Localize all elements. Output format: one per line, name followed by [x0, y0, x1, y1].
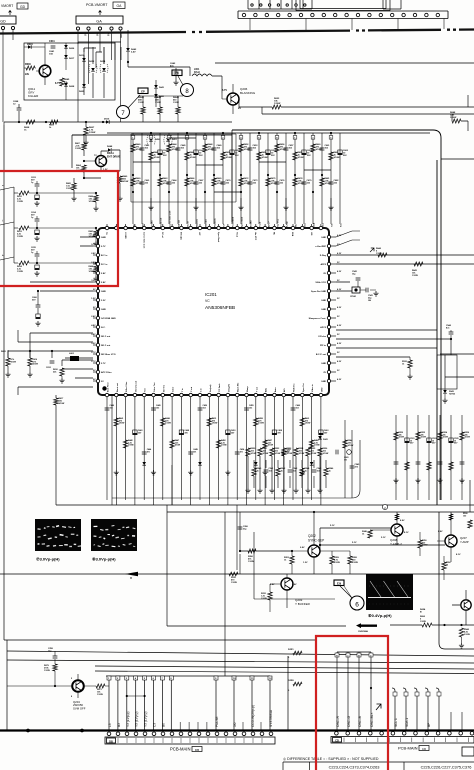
- label R-cross: [231, 577, 237, 584]
- svg-text:⑥0.4Vp-p(H): ⑥0.4Vp-p(H): [368, 613, 392, 618]
- svg-text:RJR8: RJR8: [288, 680, 294, 682]
- label Q206 BLANKING: [222, 87, 256, 110]
- svg-text:R645: R645: [64, 78, 70, 81]
- svg-text:APC Filter: APC Filter: [101, 371, 112, 374]
- svg-text:CF541: CF541: [350, 295, 357, 298]
- testpoint box E29: [334, 580, 352, 598]
- resistor R208 R210 row: [320, 551, 358, 574]
- bottom connector line 2: [116, 676, 121, 730]
- svg-text:C641: C641: [49, 40, 55, 43]
- svg-text:Delay(Y): Delay(Y): [228, 384, 230, 392]
- svg-text:◎ DIFFERENCE TABLE ○ : SUPP: ◎ DIFFERENCE TABLE ○ : SUPPLIED × : NOT …: [283, 757, 379, 761]
- svg-text:GA: GA: [96, 20, 102, 24]
- svg-text:AN5306NFBB: AN5306NFBB: [205, 305, 235, 311]
- CD connector line 4: [436, 688, 441, 730]
- diode D605: [79, 84, 86, 93]
- svg-text:37µH: 37µH: [194, 72, 200, 74]
- svg-text:Corner Sels Cont: Corner Sels Cont: [169, 210, 172, 227]
- resistor R664: [76, 164, 86, 178]
- svg-text:SDA: SDA: [291, 232, 294, 237]
- label Q205 Y-AMP-2: [381, 520, 409, 546]
- svg-text:D648: D648: [107, 145, 113, 148]
- resistor R669: [117, 176, 128, 201]
- svg-text:SD Tint: SD Tint: [162, 385, 165, 392]
- svg-text:CHROMA: CHROMA: [358, 630, 368, 633]
- inductor L601: [65, 353, 93, 361]
- wire GA pins down: [78, 30, 121, 122]
- svg-text:D614: D614: [100, 60, 106, 63]
- wire left pins 360-378: [62, 360, 93, 378]
- svg-text:1/10W: 1/10W: [420, 621, 426, 623]
- svg-text:AFC F: AFC F: [268, 220, 271, 227]
- svg-text:6: 6: [355, 602, 359, 609]
- svg-text:SD-Y out: SD-Y out: [101, 335, 110, 338]
- svg-text:Parabola: Parabola: [215, 218, 217, 227]
- svg-text:RGB Vcc: RGB Vcc: [294, 383, 296, 392]
- svg-text:1/10W: 1/10W: [314, 445, 320, 447]
- capacitor C358: [48, 648, 57, 664]
- component column below IC x209: [207, 400, 217, 505]
- svg-text:GND: GND: [321, 300, 326, 302]
- component column above IC x286: [283, 133, 294, 227]
- svg-text:1/10W: 1/10W: [311, 453, 317, 455]
- svg-text:Auto: Auto: [274, 387, 277, 392]
- svg-text:4.3V: 4.3V: [337, 270, 342, 273]
- label Q202 SYNC-SEP: [300, 534, 324, 564]
- svg-text:C223,C224,C373,C374,D263: C223,C224,C373,C374,D263: [329, 765, 380, 770]
- svg-text:0.9V: 0.9V: [300, 547, 305, 549]
- svg-text:1/10W: 1/10W: [287, 453, 293, 455]
- component column below IC x219: [216, 400, 226, 500]
- component column below IC x284: [281, 400, 290, 505]
- component column below IC x144: [142, 400, 152, 500]
- label Q207: [438, 531, 469, 556]
- svg-text:1/10W: 1/10W: [97, 694, 103, 696]
- svg-text:1/10W: 1/10W: [334, 157, 340, 159]
- svg-text:C641: C641: [49, 50, 55, 53]
- svg-text:Sharp: Sharp: [247, 386, 249, 392]
- svg-text:4.3V: 4.3V: [337, 306, 342, 309]
- svg-text:1/10W: 1/10W: [348, 445, 354, 447]
- svg-text:50V: 50V: [235, 155, 239, 157]
- svg-text:1/10W: 1/10W: [263, 453, 269, 455]
- cluster below-IC resistor pair x260: [257, 448, 274, 493]
- resistor R609: [45, 120, 58, 129]
- svg-text:N.C.: N.C.: [341, 223, 343, 227]
- svg-text:100: 100: [463, 515, 466, 517]
- svg-text:CCD-IN(2Vp-p): CCD-IN(2Vp-p): [251, 705, 255, 727]
- svg-text:GD: GD: [20, 5, 26, 9]
- svg-text:⑧3.0Vp-p(H): ⑧3.0Vp-p(H): [92, 557, 116, 562]
- svg-text:Hor VCC: Hor VCC: [254, 232, 256, 241]
- svg-text:103: 103: [156, 407, 159, 409]
- svg-text:GND: GND: [121, 33, 123, 38]
- h wires amp row: [319, 525, 445, 551]
- wire h-bus y133: [72, 133, 430, 168]
- component column above IC x178: [176, 133, 187, 227]
- svg-text:Burst out: Burst out: [116, 383, 119, 392]
- svg-text:1/10W: 1/10W: [89, 201, 95, 203]
- waveform photo 6: [366, 574, 413, 610]
- component column above IC x277: [275, 133, 286, 227]
- svg-text:EP: EP: [141, 90, 145, 94]
- svg-text:Sync Back: Sync Back: [242, 216, 244, 227]
- svg-text:1/10W: 1/10W: [154, 157, 160, 159]
- diode D543: [442, 388, 456, 403]
- svg-text:SCL 1: SCL 1: [394, 718, 398, 727]
- wire v x172: [171, 465, 173, 505]
- svg-text:PULSE: PULSE: [215, 717, 219, 727]
- component column below IC x302: [300, 400, 311, 505]
- component column below IC x135: [133, 400, 143, 505]
- svg-text:4.3V: 4.3V: [337, 342, 342, 345]
- diode D642: [126, 48, 137, 54]
- component column above IC x313: [311, 133, 322, 227]
- svg-text:L601: L601: [69, 353, 75, 355]
- wire bundle y671: [95, 671, 474, 674]
- bottom connector line 7: [160, 676, 165, 730]
- callout 8: [178, 76, 194, 97]
- resistor R671: [94, 684, 109, 696]
- svg-text:D615: D615: [104, 119, 110, 121]
- highlight red box bottom: [316, 636, 388, 770]
- resistor R623: [272, 98, 281, 109]
- resistor R607: [83, 121, 96, 145]
- top-right component boxes (cut off): [248, 0, 401, 11]
- svg-text:DC ctl: DC ctl: [187, 221, 190, 227]
- component column above IC x232: [230, 133, 241, 227]
- svg-text:103: 103: [203, 407, 206, 409]
- svg-text:SVM OFF: SVM OFF: [73, 706, 86, 710]
- bottom connector line 5: [143, 676, 148, 730]
- resistor R544: [459, 628, 470, 648]
- label PCB-MAIN CD: [398, 746, 429, 751]
- wire top-right strip drops: [250, 19, 444, 31]
- svg-text:0.8V: 0.8V: [91, 334, 96, 336]
- svg-text:1/10W: 1/10W: [33, 364, 39, 366]
- component column above IC x241: [238, 133, 249, 227]
- svg-text:AFC2: AFC2: [320, 326, 326, 329]
- resistor col R604x c: [173, 96, 180, 122]
- svg-text:56: 56: [446, 564, 448, 566]
- resistor R532: [402, 357, 413, 379]
- svg-text:AFF2: AFF2: [321, 263, 327, 266]
- svg-text:Y-AMP: Y-AMP: [460, 540, 469, 544]
- svg-text:Feed Back: Feed Back: [233, 216, 235, 227]
- diode D651 oval: [164, 135, 178, 145]
- component column above IC x160: [158, 133, 169, 227]
- diode D650 oval: [147, 135, 161, 145]
- bus thick bottom: [0, 729, 474, 733]
- wire row y96: [138, 95, 183, 97]
- resistor RJR8: [270, 680, 338, 692]
- resistor R643: [412, 262, 423, 277]
- svg-text:0.7V: 0.7V: [91, 244, 96, 246]
- transistor Q203: [270, 574, 293, 608]
- wire sync row v: [237, 505, 240, 574]
- component column above IC x268: [266, 133, 277, 227]
- svg-text:4.8V: 4.8V: [91, 324, 96, 327]
- svg-text:8.9V: 8.9V: [400, 520, 405, 522]
- OSC line OSC&#8211;G: [346, 652, 351, 730]
- svg-text:V-Pulse: V-Pulse: [318, 336, 327, 338]
- diode D617: [64, 55, 75, 60]
- diode D648: [101, 145, 120, 171]
- svg-text:OSC–R: OSC–R: [336, 715, 340, 727]
- label waveform 7: [36, 557, 60, 562]
- svg-text:22k: 22k: [25, 73, 30, 76]
- wire y625 right: [390, 624, 474, 626]
- wire GD pins down: [3, 30, 13, 122]
- RC filter row y228: [14, 211, 99, 246]
- component column below IC x293: [291, 400, 300, 500]
- bottom connector line 1: [107, 676, 112, 730]
- wire v x225: [224, 512, 226, 676]
- svg-text:GND: GND: [101, 309, 106, 311]
- resistor R624: [420, 615, 432, 627]
- svg-text:Y BUFFER: Y BUFFER: [295, 602, 311, 606]
- CD connector line 0: [392, 688, 398, 730]
- svg-text:2.7V: 2.7V: [91, 361, 96, 363]
- svg-text:OSC–G: OSC–G: [347, 715, 351, 727]
- component column below IC x191: [188, 400, 198, 505]
- svg-text:2.7V: 2.7V: [91, 352, 96, 354]
- diode D613 with arcs: [89, 61, 97, 73]
- OSC line OSC&#8211;BL&#215;: [369, 652, 374, 730]
- svg-text:VC: VC: [205, 299, 210, 303]
- svg-text:Corner Sels Cont: Corner Sels Cont: [142, 232, 145, 249]
- callout 6: [340, 586, 364, 610]
- callout 7: [117, 95, 141, 119]
- svg-text:BLANKING: BLANKING: [240, 91, 256, 95]
- highlight red box left: [0, 171, 118, 286]
- resistor R610: [53, 368, 65, 383]
- svg-text:HZT33: HZT33: [449, 393, 456, 395]
- svg-text:E29: E29: [337, 583, 342, 586]
- svg-text:1/10W: 1/10W: [298, 157, 304, 159]
- wire L601 path: [128, 67, 222, 93]
- svg-text:Black Mix: Black Mix: [238, 382, 240, 392]
- svg-text:1/10W: 1/10W: [123, 181, 129, 183]
- svg-text:1/10W: 1/10W: [44, 670, 50, 672]
- svg-text:50V: 50V: [307, 155, 311, 157]
- svg-text:SDA: SDA: [313, 222, 316, 227]
- svg-text:D613: D613: [89, 61, 95, 63]
- svg-text:471: 471: [147, 450, 150, 453]
- svg-text:D616: D616: [27, 43, 33, 46]
- svg-text:2.8V: 2.8V: [91, 253, 96, 255]
- arrow testpoint 255: [370, 248, 374, 252]
- svg-text:50Hz VCO: 50Hz VCO: [316, 282, 327, 284]
- wire h-bus y512: [167, 511, 474, 513]
- diode D606: [64, 45, 75, 50]
- svg-text:GND: GND: [101, 291, 106, 293]
- wire Q611 block: [24, 43, 66, 100]
- box sync sub: [254, 532, 335, 599]
- wire right edge drop: [467, 95, 469, 131]
- transistor Q202: [240, 511, 320, 574]
- component column below IC x116: [114, 400, 125, 505]
- resistor R536: [463, 513, 472, 528]
- cluster below-IC resistor pair x284: [281, 448, 298, 493]
- table difference: [283, 762, 474, 770]
- component column below IC x163: [161, 400, 171, 500]
- resistor R250: [418, 532, 428, 556]
- component column above IC x169: [167, 133, 178, 227]
- svg-text:1/10W: 1/10W: [119, 423, 125, 425]
- electrolytic C607: [35, 314, 40, 326]
- component column above IC x142: [140, 133, 151, 227]
- component column above IC x259: [257, 132, 268, 227]
- svg-text:1/10W: 1/10W: [212, 423, 218, 425]
- wire left pin runs: [18, 237, 93, 395]
- component column above IC x151: [148, 132, 159, 227]
- label waveform 6: [368, 613, 392, 618]
- label EHT DRIVE: [94, 152, 121, 171]
- wire right double bus: [436, 160, 438, 505]
- svg-text:Sharpness Cont.: Sharpness Cont.: [309, 317, 327, 320]
- component column below IC x181: [179, 400, 189, 500]
- svg-text:GND: GND: [101, 237, 106, 239]
- component column below IC x312: [309, 400, 319, 500]
- svg-text:1/10W: 1/10W: [323, 453, 329, 455]
- svg-text:IC201: IC201: [205, 292, 217, 297]
- IC IC201 body: [98, 228, 329, 395]
- capacitor C206: [238, 526, 249, 530]
- resistor R645: [55, 78, 70, 86]
- component column below IC x172: [170, 400, 180, 505]
- component column above IC x223: [221, 132, 232, 227]
- svg-text:Y3 (1Vp-p): Y3 (1Vp-p): [144, 712, 148, 727]
- svg-text:Be: Be: [161, 723, 165, 727]
- component column below IC x274: [272, 400, 282, 500]
- transistor Q204: [7, 674, 94, 698]
- wire jumper lines 3-5: [126, 695, 146, 697]
- resistor R616: [27, 355, 38, 377]
- svg-text:4.3V: 4.3V: [337, 288, 342, 291]
- connector PCB-MAIN CD pins: [335, 732, 474, 736]
- wire EHT block: [72, 135, 120, 179]
- wire h-bus y505: [56, 504, 474, 506]
- svg-text:3.3V: 3.3V: [91, 280, 96, 282]
- svg-text:D608: D608: [69, 86, 75, 88]
- svg-text:Killer Filter: Killer Filter: [125, 381, 128, 392]
- svg-text:1/10W: 1/10W: [59, 403, 65, 405]
- svg-text:OSC–B: OSC–B: [358, 716, 362, 727]
- svg-text:1/10W: 1/10W: [299, 453, 305, 455]
- svg-text:47p: 47p: [170, 65, 174, 68]
- cluster below-IC resistor pair x248: [245, 448, 262, 493]
- svg-text:G/Y-RGB GND: G/Y-RGB GND: [101, 318, 116, 320]
- resistor R231: [229, 572, 238, 576]
- svg-text:R-Y in: R-Y in: [101, 264, 108, 266]
- svg-text:PCB-MAIN: PCB-MAIN: [170, 747, 190, 752]
- resistor col R604x a: [138, 96, 145, 122]
- svg-text:0.7V: 0.7V: [101, 246, 106, 248]
- transistor Q206: [222, 84, 239, 114]
- capacitor C542: [352, 270, 361, 291]
- svg-text:Effect(l): Effect(l): [180, 232, 183, 240]
- svg-text:Sw(out): Sw(out): [209, 384, 212, 392]
- label IC201: [102, 292, 235, 391]
- svg-text:1/10W: 1/10W: [128, 445, 134, 447]
- resistor R379: [44, 664, 57, 687]
- connector GA: [76, 11, 123, 39]
- svg-text:Tint: Tint: [144, 388, 147, 392]
- svg-text:Sync-Det GND: Sync-Det GND: [311, 290, 326, 293]
- svg-text:Y out: Y out: [255, 387, 258, 392]
- cluster below-IC resistor pair x308: [305, 448, 322, 493]
- CD connector line 1: [403, 688, 409, 730]
- component column below IC x321: [319, 400, 329, 505]
- svg-text:SD-Y out: SD-Y out: [101, 344, 110, 347]
- cluster below-IC resistor pair x272: [269, 448, 286, 493]
- wire x288 drop: [287, 656, 289, 730]
- diode D608: [64, 83, 75, 88]
- svg-text:1/10W: 1/10W: [165, 423, 171, 425]
- IC201 left pins: [91, 235, 116, 383]
- svg-text:H out: H out: [235, 232, 238, 237]
- right cluster column x462: [459, 415, 470, 500]
- svg-text:103: 103: [296, 407, 299, 409]
- wire d543 area: [445, 355, 470, 512]
- resistor R246: [362, 530, 372, 538]
- svg-text:D624: D624: [420, 608, 426, 611]
- resistor col R604x b: [155, 96, 162, 122]
- svg-text:1/10W: 1/10W: [190, 157, 196, 159]
- wire right pin runs: [336, 255, 474, 357]
- RC filter row y263: [14, 247, 99, 281]
- svg-text:4.3V: 4.3V: [337, 360, 342, 363]
- svg-text:DB: DB: [195, 748, 199, 752]
- right cluster column x429: [427, 415, 437, 500]
- capacitor C612: [46, 361, 54, 369]
- wire row y122: [4, 121, 232, 123]
- svg-text:1/10W: 1/10W: [262, 157, 268, 159]
- svg-text:1/10W: 1/10W: [221, 445, 227, 447]
- svg-text:RJR1: RJR1: [288, 649, 294, 651]
- resistor RJR1: [288, 649, 302, 659]
- label PCB-VMORT left: [1, 3, 28, 9]
- component column above IC x214: [212, 133, 223, 227]
- svg-text:5/0: 5/0: [233, 722, 237, 727]
- bottom connector tall line 5/0: [232, 676, 237, 730]
- cluster below-IC resistor pair x296: [293, 447, 310, 493]
- svg-text:Q202: Q202: [308, 534, 316, 538]
- svg-text:2.7V: 2.7V: [101, 363, 106, 365]
- bottom connector tall line PULSE: [214, 676, 219, 730]
- svg-text:R646: R646: [25, 63, 31, 66]
- transistor QR (right edge): [452, 590, 471, 625]
- svg-text:H out: H out: [259, 222, 262, 227]
- label difference table: [283, 757, 379, 761]
- label waveform 8: [92, 557, 116, 562]
- component column below IC x107: [105, 400, 114, 500]
- svg-text:B-Y in: B-Y in: [101, 255, 108, 257]
- diode D241: [318, 433, 328, 441]
- svg-text:GND: GND: [321, 363, 326, 365]
- waveform photo 7: [35, 519, 82, 551]
- svg-text:Effect(l): Effect(l): [205, 219, 208, 227]
- label D624: [420, 608, 426, 614]
- svg-text:8.1V: 8.1V: [456, 554, 461, 556]
- svg-text:Y3 (1Vp-p): Y3 (1Vp-p): [135, 712, 139, 727]
- svg-text:1/10W: 1/10W: [17, 201, 23, 203]
- resistor R232: [261, 584, 272, 612]
- svg-text:Hor VCC: Hor VCC: [278, 218, 280, 227]
- svg-text:CD: CD: [335, 739, 339, 743]
- svg-text:DB: DB: [109, 740, 113, 744]
